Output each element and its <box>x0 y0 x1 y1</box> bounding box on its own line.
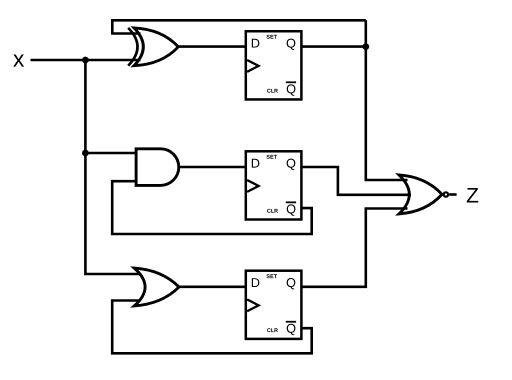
node junction dot at FF1 Q <box>362 43 369 50</box>
flip-flop U2 clock triangle <box>247 180 259 192</box>
node junction dot at x branch <box>82 57 89 64</box>
wire OR output to FF3 D <box>179 285 246 288</box>
flip-flop U1 clock triangle <box>247 60 259 72</box>
wire AND lower input feedback from FF2 Qbar <box>112 181 312 234</box>
flip-flop U1 labels <box>252 35 296 96</box>
wire XOR output to FF1 D <box>177 45 246 48</box>
node junction dot at AND row <box>82 150 89 157</box>
flip-flop U2 labels <box>252 155 296 216</box>
xor-gate G1 body <box>134 28 178 66</box>
xor-gate G1 extra input arc <box>128 28 137 66</box>
wire branch to AND upper input <box>85 152 137 155</box>
flip-flop U2 Qbar overline <box>286 201 296 203</box>
flip-flop U1 pin label Q <box>287 39 296 50</box>
flip-flop U1 pin label Qbar <box>287 84 296 95</box>
wire x input to XOR lower input <box>31 59 141 62</box>
flip-flop U2 pin label Qbar <box>287 204 296 215</box>
flip-flop U2 pin label Q <box>287 159 296 170</box>
flip-flop U3 pin label Q <box>287 278 296 289</box>
node x input label <box>13 55 24 67</box>
wire FF3 Q up to NOR bottom input <box>301 209 407 287</box>
flip-flop U3 Qbar overline <box>286 321 296 323</box>
node Z output label <box>467 188 479 202</box>
wire AND output to FF2 D <box>179 166 246 169</box>
flip-flop U1 Qbar overline <box>286 81 296 83</box>
flip-flop U2 pin label SET <box>267 155 277 159</box>
nor-gate G4 body <box>399 175 442 214</box>
wire right vertical bus down to NOR top input <box>366 20 408 180</box>
or-gate G3 <box>134 268 179 306</box>
flip-flop U3 clock triangle <box>247 299 259 311</box>
wire feedback from FF1 Q over the top to XOR upper input <box>112 20 365 33</box>
flip-flop U3 pin label D <box>252 278 260 287</box>
flip-flop U3 labels <box>252 274 296 335</box>
flip-flop U1 pin label CLR <box>267 89 278 93</box>
flip-flop U2 pin label D <box>252 159 260 168</box>
wire FF2 Q to NOR middle input <box>301 167 411 195</box>
flip-flop U2 box <box>246 151 302 219</box>
flip-flop U3 box <box>246 271 302 339</box>
and-gate G2 <box>136 149 179 186</box>
flip-flop U3 pin label CLR <box>267 328 278 332</box>
flip-flop U2 pin label CLR <box>267 209 278 213</box>
wire OR lower input feedback from FF3 Qbar <box>112 301 312 354</box>
flip-flop U3 pin label SET <box>267 274 277 278</box>
wire FF1 Q output to right vertical bus <box>301 45 365 48</box>
wire NOR output stub <box>449 193 457 196</box>
flip-flop U1 pin label SET <box>267 35 277 39</box>
wire vertical branch from x down to OR row <box>85 60 140 274</box>
flip-flop U3 pin label Qbar <box>287 324 296 335</box>
nor-gate G4 inversion bubble <box>444 192 448 196</box>
flip-flop U1 box <box>246 31 302 99</box>
flip-flop U1 pin label D <box>252 39 260 48</box>
